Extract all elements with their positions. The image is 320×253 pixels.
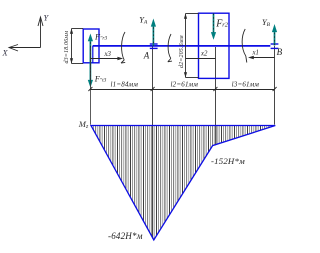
support A ticks: [150, 43, 158, 45]
pulley 2 outline: [199, 13, 230, 78]
svg-text:YB: YB: [262, 18, 271, 28]
dimension tick 1: [88, 87, 92, 91]
gridline at support A: [152, 46, 154, 239]
svg-text:F″t3: F″t3: [94, 74, 107, 83]
pulley 3 inner step: [92, 46, 94, 63]
x1 axis: [250, 57, 275, 59]
svg-text:d3=18.06мм: d3=18.06мм: [64, 31, 70, 64]
svg-text:x1: x1: [252, 50, 259, 57]
gridline at pulley3 force: [90, 47, 92, 125]
x2 axis: [186, 58, 216, 60]
torque arc 1: [122, 32, 125, 60]
reaction YB arrow: [274, 31, 276, 46]
dimension tick 4: [273, 87, 277, 91]
svg-text:-642Н*м: -642Н*м: [108, 231, 143, 241]
pulley 3 outline: [83, 29, 99, 63]
coordinate axes: [9, 17, 43, 51]
svg-text:B: B: [277, 47, 283, 57]
torque arc 2: [168, 34, 171, 59]
shaft: [93, 45, 271, 47]
force F"t3 arrow down: [88, 80, 93, 88]
svg-text:d2=205.6мм: d2=205.6мм: [179, 35, 185, 68]
force Fr2 arrow down: [213, 14, 215, 34]
svg-text:Fr2: Fr2: [215, 19, 229, 30]
svg-text:l3=61мм: l3=61мм: [232, 80, 260, 88]
svg-text:x3: x3: [104, 51, 112, 58]
svg-text:x2: x2: [200, 51, 208, 58]
reaction YA arrow: [152, 25, 154, 46]
svg-text:X: X: [2, 49, 9, 58]
support B ticks: [271, 43, 279, 45]
x3 axis: [90, 58, 121, 60]
d3 dimension bracket: [72, 29, 84, 64]
dimension line: [90, 89, 274, 91]
svg-text:F″r3: F″r3: [94, 32, 107, 41]
dimension tick 3: [213, 87, 217, 91]
svg-text:Mz: Mz: [78, 119, 89, 130]
svg-text:l2=61мм: l2=61мм: [171, 80, 199, 88]
force F"r3 arrow up: [89, 39, 91, 81]
dimension tick 2: [151, 87, 155, 91]
svg-text:-152Н*м: -152Н*м: [211, 156, 245, 166]
d2 dimension bracket: [186, 14, 199, 78]
svg-text:YA: YA: [139, 15, 148, 25]
svg-text:A: A: [143, 50, 150, 60]
svg-text:Y: Y: [44, 14, 50, 23]
svg-text:l1=84мм: l1=84мм: [111, 80, 139, 88]
moment diagram Mz: [91, 126, 275, 241]
gridline at section 2/3 boundary: [215, 47, 217, 145]
torque arc 3: [242, 29, 246, 56]
gridline at support B: [274, 46, 276, 125]
